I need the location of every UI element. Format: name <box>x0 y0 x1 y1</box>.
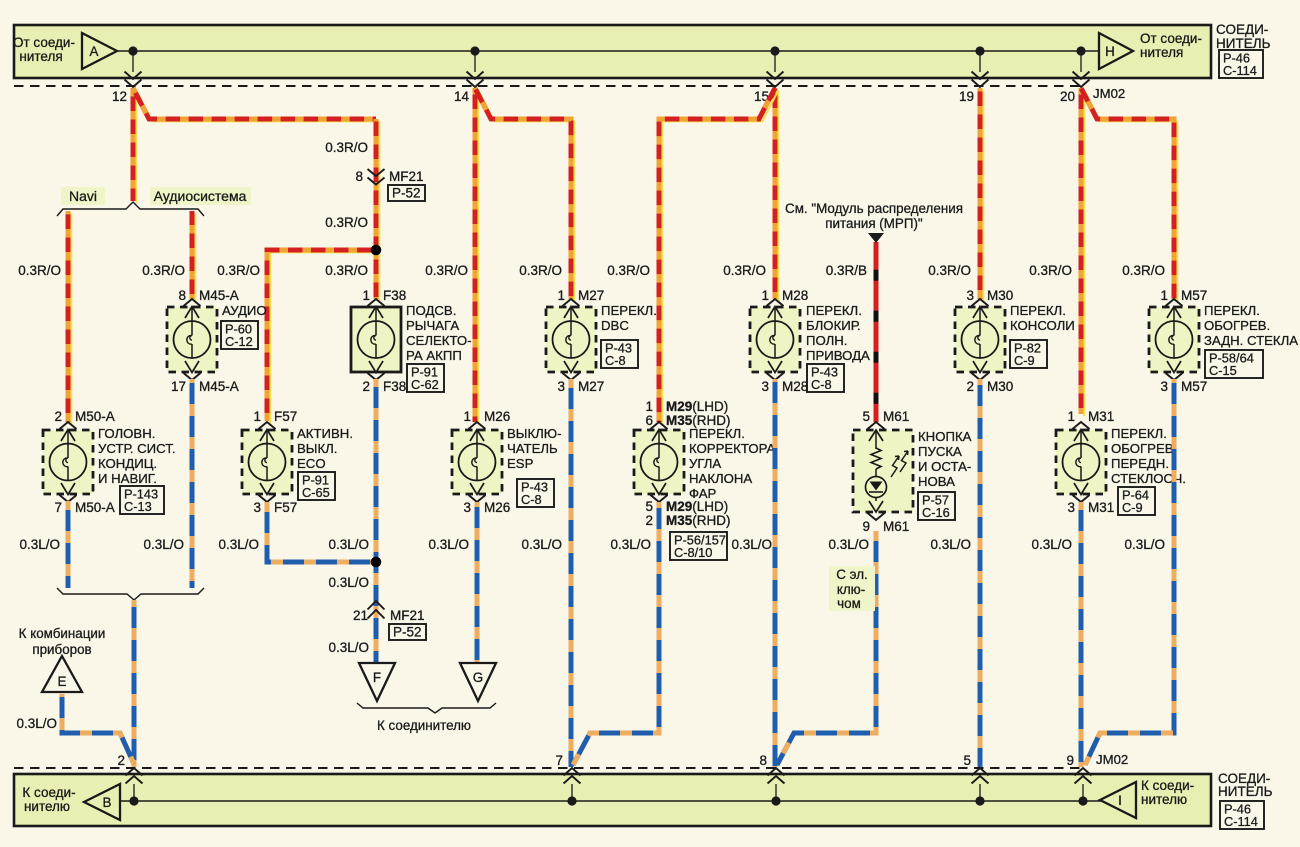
svg-text:2: 2 <box>362 379 370 394</box>
node pin 15 on top band <box>754 46 784 104</box>
label К соединителю (F/G) <box>377 718 471 733</box>
wire labels 0.3L/O row <box>19 537 1165 552</box>
svg-text:A: A <box>90 44 99 59</box>
pins 1 M29 / 6 M35 <box>645 399 730 428</box>
svg-text:С-12: С-12 <box>225 334 253 349</box>
svg-text:С эл.: С эл. <box>836 567 867 582</box>
wire R/O pin15 vertical to 4WD lock switch <box>775 88 778 301</box>
svg-text:9: 9 <box>862 519 870 534</box>
pin 1 M27 <box>557 288 604 303</box>
connector triangle H <box>1099 33 1133 69</box>
label АКТИВН. ВЫКЛ. ECO <box>297 426 353 471</box>
svg-text:0.3R/O: 0.3R/O <box>325 215 368 230</box>
wire R/O pin14 vertical to ESP switch <box>475 88 478 424</box>
svg-text:0.3R/O: 0.3R/O <box>425 263 468 278</box>
svg-text:M26: M26 <box>484 500 510 515</box>
svg-text:1: 1 <box>463 409 471 424</box>
wire L/O console switch to bottom pin 5 <box>978 379 983 767</box>
svg-text:0.3L/O: 0.3L/O <box>218 537 259 552</box>
svg-text:2: 2 <box>117 753 125 768</box>
svg-text:С-62: С-62 <box>411 377 439 392</box>
svg-text:1: 1 <box>557 288 565 303</box>
lamp: ПЕРЕКЛ. КОНСОЛИ <box>955 299 1005 380</box>
svg-text:БЛОКИР.: БЛОКИР. <box>806 318 861 333</box>
svg-text:M26: M26 <box>484 409 510 424</box>
svg-text:0.3L/O: 0.3L/O <box>328 575 369 590</box>
svg-text:5: 5 <box>645 499 653 514</box>
pin 1 M57 <box>1160 288 1207 303</box>
ref box P-58/64 C-15 <box>1205 350 1263 378</box>
label ПЕРЕКЛ. ОБОГРЕВ. ПЕРЕДН. СТЕКЛООЧ. <box>1111 426 1186 486</box>
label JM02 bottom <box>1096 752 1128 767</box>
svg-text:КОНСОЛИ: КОНСОЛИ <box>1010 318 1075 333</box>
svg-text:0.3R/B: 0.3R/B <box>826 263 867 278</box>
svg-text:3: 3 <box>1160 379 1168 394</box>
svg-text:ПЕРЕКЛ.: ПЕРЕКЛ. <box>689 426 745 441</box>
label С эл. ключом <box>829 566 875 611</box>
svg-text:0.3L/O: 0.3L/O <box>143 537 184 552</box>
svg-text:ПЕРЕКЛ.: ПЕРЕКЛ. <box>1204 303 1260 318</box>
ref box P-46 C-114 top right <box>1219 50 1263 78</box>
node pin 12 on top band <box>112 46 142 104</box>
svg-text:JM02: JM02 <box>1093 86 1125 101</box>
svg-text:7: 7 <box>54 500 62 515</box>
connector triangle I <box>1100 782 1136 818</box>
svg-text:M28: M28 <box>782 288 808 303</box>
ref box P-57 C-16 <box>918 492 955 520</box>
svg-text:С-8: С-8 <box>605 353 626 368</box>
wire R/O pin19 vertical to console switch <box>980 88 983 301</box>
svg-text:ПРИВОДА: ПРИВОДА <box>806 348 870 363</box>
svg-text:С-9: С-9 <box>1122 500 1143 515</box>
svg-text:ФАР: ФАР <box>689 486 717 501</box>
label JM02 top <box>1093 86 1125 101</box>
pin 3 M26 <box>463 500 510 515</box>
svg-text:M35(RHD): M35(RHD) <box>666 513 731 528</box>
svg-text:0.3L/O: 0.3L/O <box>328 537 369 552</box>
pin 2 M30 <box>966 379 1013 394</box>
svg-text:СОЕДИ-: СОЕДИ- <box>1216 22 1268 37</box>
label Аудиосистема <box>150 187 251 205</box>
wire R/O MF21 column down to F38 <box>376 119 379 301</box>
svg-text:ПОДСВ.: ПОДСВ. <box>406 303 456 318</box>
svg-text:0.3L/O: 0.3L/O <box>328 640 369 655</box>
pins 5 M29 / 2 M35 <box>645 499 730 528</box>
ref box P-64 C-9 <box>1118 487 1155 515</box>
lamp: ГОЛОВН. УСТР. СИСТ. КОНДИЦ. И НАВИГ. <box>43 422 93 502</box>
svg-text:РА АКПП: РА АКПП <box>406 348 462 363</box>
svg-text:M45-A: M45-A <box>199 288 239 303</box>
svg-text:3: 3 <box>253 500 261 515</box>
pin 8 M45-A <box>178 288 238 303</box>
svg-text:M57: M57 <box>1181 379 1207 394</box>
note: see power distribution module <box>785 201 963 243</box>
svg-text:С-65: С-65 <box>302 485 330 500</box>
label ПЕРЕКЛ. DBC <box>601 303 657 333</box>
wire L/O start/stop button to pin 8 <box>777 531 876 765</box>
pin 9 M61 <box>862 519 909 534</box>
svg-text:0.3L/O: 0.3L/O <box>428 537 469 552</box>
svg-text:0.3R/O: 0.3R/O <box>607 263 650 278</box>
connector triangle E <box>42 656 82 692</box>
label ПОДСВ. РЫЧАГА СЕЛЕКТОРА АКПП <box>406 303 472 363</box>
svg-text:0.3R/O: 0.3R/O <box>1122 263 1165 278</box>
svg-text:От соеди-: От соеди- <box>1140 31 1202 46</box>
svg-text:14: 14 <box>454 89 470 104</box>
svg-text:G: G <box>473 670 483 685</box>
svg-text:Р-52: Р-52 <box>392 186 421 201</box>
svg-text:КОРРЕКТОРА: КОРРЕКТОРА <box>689 441 775 456</box>
node junction dot F38 column <box>371 245 382 256</box>
label К соединителю (right) <box>1141 778 1194 807</box>
svg-text:1: 1 <box>253 409 261 424</box>
svg-text:M30: M30 <box>987 379 1013 394</box>
svg-text:КОНДИЦ.: КОНДИЦ. <box>98 456 157 471</box>
wire R/B from MPD module to start/stop button <box>874 242 879 422</box>
lamp: ПЕРЕКЛ. DBC <box>546 299 596 380</box>
svg-text:ПЕРЕКЛ.: ПЕРЕКЛ. <box>806 303 862 318</box>
svg-text:0.3L/O: 0.3L/O <box>1124 537 1165 552</box>
svg-text:MF21: MF21 <box>390 608 425 623</box>
svg-text:ПОЛН.: ПОЛН. <box>806 333 847 348</box>
svg-text:нителю: нителю <box>24 799 70 814</box>
svg-text:M61: M61 <box>883 409 909 424</box>
wire L/O rear defogger to pin 9 <box>1085 379 1174 765</box>
svg-text:2: 2 <box>645 513 653 528</box>
bottom connector bus band <box>14 774 1211 826</box>
wire R/O pin12 branch to MF21 column <box>133 88 379 121</box>
label 0.3L/O (E branch) <box>16 716 57 731</box>
dashed boundary line bottom <box>14 767 1084 769</box>
label АУДИО <box>222 303 267 318</box>
svg-text:СЕЛЕКТО-: СЕЛЕКТО- <box>406 333 472 348</box>
svg-text:С-16: С-16 <box>922 505 950 520</box>
svg-text:21: 21 <box>353 608 368 623</box>
svg-text:1: 1 <box>1067 409 1075 424</box>
label: От соединителя (left) <box>13 35 75 64</box>
svg-text:1: 1 <box>1160 288 1168 303</box>
svg-text:НИТЕЛЬ: НИТЕЛЬ <box>1218 784 1273 799</box>
svg-text:I: I <box>1118 793 1122 808</box>
svg-text:MF21: MF21 <box>389 169 424 184</box>
wire L/O 4WD lock to bottom pin 8 <box>773 379 778 767</box>
top connector bus band <box>14 25 1211 78</box>
wire L/O DBC to bottom pin 7 <box>569 379 574 767</box>
svg-text:АУДИО: АУДИО <box>222 303 267 318</box>
svg-text:M50-A: M50-A <box>75 500 115 515</box>
svg-text:1: 1 <box>362 288 370 303</box>
node pin 20 on top band <box>1060 46 1090 104</box>
svg-text:нителю: нителю <box>1141 792 1187 807</box>
wire R/O branch junction to F57 column <box>267 250 379 423</box>
svg-text:И НАВИГ.: И НАВИГ. <box>98 471 157 486</box>
svg-text:0.3L/O: 0.3L/O <box>930 537 971 552</box>
svg-text:К соединителю: К соединителю <box>377 718 471 733</box>
svg-text:M61: M61 <box>883 519 909 534</box>
svg-text:E: E <box>58 674 67 689</box>
svg-text:ПЕРЕДН.: ПЕРЕДН. <box>1111 456 1169 471</box>
node pin 19 on top band <box>959 46 989 104</box>
svg-text:НАКЛОНА: НАКЛОНА <box>689 471 752 486</box>
pin 17 M45-A <box>171 379 239 394</box>
connector triangle F <box>359 663 395 701</box>
svg-text:С-15: С-15 <box>1209 363 1237 378</box>
node pin 5 on bottom band <box>963 753 988 806</box>
svg-text:0.3R/O: 0.3R/O <box>325 140 368 155</box>
wire L/O Audio to merge bracket <box>190 379 195 588</box>
svg-text:M27: M27 <box>578 288 604 303</box>
svg-text:КНОПКА: КНОПКА <box>918 429 972 444</box>
svg-text:M29(LHD): M29(LHD) <box>666 499 728 514</box>
svg-text:клю-: клю- <box>837 582 865 597</box>
connector triangle B <box>84 784 120 820</box>
extra 0.3R/O labels MF21 column <box>325 140 368 230</box>
lamp: ПЕРЕКЛ. ОБОГРЕВ. ЗАДН. СТЕКЛА <box>1149 299 1199 380</box>
connector triangle G <box>460 663 496 701</box>
svg-text:ВЫКЛ.: ВЫКЛ. <box>297 441 337 456</box>
svg-text:JM02: JM02 <box>1096 752 1128 767</box>
wire R/O pin20 branch to rear defogger switch <box>1081 88 1177 301</box>
lamp: ПЕРЕКЛ. БЛОКИР. ПОЛН. ПРИВОДА <box>750 299 800 380</box>
svg-text:0.3R/O: 0.3R/O <box>18 263 61 278</box>
pin 3 M28 <box>761 379 808 394</box>
svg-text:С-13: С-13 <box>124 499 152 514</box>
ref box P-43 C-8 (ESP) <box>517 479 554 507</box>
wire L/O leveling switch to pin 7 <box>573 502 659 765</box>
svg-text:0.3R/O: 0.3R/O <box>1029 263 1072 278</box>
svg-text:0.3R/O: 0.3R/O <box>325 263 368 278</box>
wire R/O pin12 vertical to Navi/Audio bracket <box>133 88 136 203</box>
svg-text:0.3L/O: 0.3L/O <box>1031 537 1072 552</box>
label КНОПКА ПУСКА И ОСТАНОВА <box>918 429 972 489</box>
label ПЕРЕКЛ. КОНСОЛИ <box>1010 303 1075 333</box>
svg-text:ЧАТЕЛЬ: ЧАТЕЛЬ <box>507 441 558 456</box>
wire L/O Navi to merge bracket <box>66 501 71 588</box>
svg-text:1: 1 <box>645 399 653 414</box>
svg-text:M27: M27 <box>578 379 604 394</box>
bracket under F and G <box>357 703 496 713</box>
svg-text:8: 8 <box>355 169 363 184</box>
svg-text:H: H <box>1105 44 1115 59</box>
svg-text:3: 3 <box>557 379 565 394</box>
svg-text:ESP: ESP <box>507 456 534 471</box>
svg-text:3: 3 <box>966 288 974 303</box>
svg-text:НИТЕЛЬ: НИТЕЛЬ <box>1216 36 1271 51</box>
svg-text:2: 2 <box>966 379 974 394</box>
ref box P-43 C-8 (4WD) <box>807 364 844 392</box>
svg-text:И ОСТА-: И ОСТА- <box>918 459 971 474</box>
node pin 9 on bottom band <box>1066 753 1091 806</box>
wire R/O pin14 branch to DBC <box>475 88 574 301</box>
dashed boundary line top <box>14 85 1081 87</box>
lamp: ПЕРЕКЛ. ОБОГРЕВ. ПЕРЕДН. СТЕКЛООЧ. <box>1056 422 1106 502</box>
svg-text:С-8/10: С-8/10 <box>674 545 712 560</box>
label ПЕРЕКЛ. КОРРЕКТОРА УГЛА НАКЛОНА ФАР <box>689 426 775 501</box>
wire L/O F57 to junction <box>267 502 376 562</box>
pin 3 M57 <box>1160 379 1207 394</box>
inline connector 8 MF21 P-52 (top) <box>355 169 425 201</box>
svg-text:НОВА: НОВА <box>918 474 955 489</box>
svg-text:M28: M28 <box>782 379 808 394</box>
svg-text:0.3L/O: 0.3L/O <box>610 537 651 552</box>
pin 7 M50-A <box>54 500 114 515</box>
svg-text:M31: M31 <box>1088 500 1114 515</box>
svg-text:ECO: ECO <box>297 456 326 471</box>
label ПЕРЕКЛ. ОБОГРЕВ. ЗАДН. СТЕКЛА <box>1204 303 1298 348</box>
svg-text:0.3R/O: 0.3R/O <box>142 263 185 278</box>
svg-text:ПЕРЕКЛ.: ПЕРЕКЛ. <box>1111 426 1167 441</box>
svg-text:УГЛА: УГЛА <box>689 456 721 471</box>
pin 1 F38 <box>362 288 406 303</box>
wire R/O pin20 vertical to front wiper deicer switch <box>1081 88 1084 416</box>
node pin 14 on top band <box>454 46 484 104</box>
pin 1 M28 <box>761 288 808 303</box>
svg-text:нителя: нителя <box>1140 45 1183 60</box>
svg-text:С-114: С-114 <box>1224 814 1258 829</box>
pin 5 M61 <box>862 409 909 424</box>
node pin 7 on bottom band <box>555 753 580 806</box>
connector triangle A <box>82 33 117 69</box>
svg-text:6: 6 <box>645 413 653 428</box>
ref box P-60 C-12 <box>221 321 258 349</box>
svg-text:8: 8 <box>759 753 767 768</box>
ref box P-56/157 C-8/10 <box>670 532 727 560</box>
svg-text:0.3R/O: 0.3R/O <box>519 263 562 278</box>
svg-text:С-8: С-8 <box>521 492 542 507</box>
pin 1 M26 <box>463 409 510 424</box>
svg-text:20: 20 <box>1060 89 1075 104</box>
svg-text:F38: F38 <box>383 379 406 394</box>
svg-text:0.3L/O: 0.3L/O <box>19 537 60 552</box>
svg-text:5: 5 <box>862 409 870 424</box>
label ПЕРЕКЛ. БЛОКИР. ПОЛН. ПРИВОДА <box>806 303 870 363</box>
inline connector 21 MF21 P-52 (bottom) <box>328 575 426 655</box>
svg-text:К соеди-: К соеди- <box>1141 778 1194 793</box>
pin 3 M31 <box>1067 500 1114 515</box>
wire L/O deicer switch to bottom pin 9 <box>1079 502 1084 767</box>
lamp: АКТИВН. ВЫКЛ. ECO <box>242 422 292 502</box>
lamp: ПОДСВ. РЫЧАГА СЕЛЕКТОРА АКПП <box>351 299 401 380</box>
node pin 2 on bottom band <box>117 753 142 806</box>
wire L/O from combination meter E branch <box>62 694 134 764</box>
wire R/O pin15 branch to headlamp leveling switch <box>659 88 778 424</box>
svg-text:АКТИВН.: АКТИВН. <box>297 426 353 441</box>
svg-text:чом: чом <box>837 596 861 611</box>
label К соединителю (left) <box>22 785 75 814</box>
label ГОЛОВН. УСТР. СИСТ. КОНДИЦ. И НАВИГ. <box>98 426 176 486</box>
svg-text:К комбинации: К комбинации <box>19 626 106 641</box>
svg-text:M29(LHD): M29(LHD) <box>666 399 728 414</box>
svg-text:Р-52: Р-52 <box>393 625 422 640</box>
wire labels 0.3R/O row <box>18 263 1165 278</box>
svg-text:F: F <box>373 670 381 685</box>
label ВЫКЛЮЧАТЕЛЬ ESP <box>507 426 562 471</box>
pin 3 M27 <box>557 379 604 394</box>
svg-text:F57: F57 <box>274 409 297 424</box>
svg-text:17: 17 <box>171 379 186 394</box>
button: КНОПКА ПУСКА И ОСТАНОВА (resistor+LED) <box>853 422 913 520</box>
label: От соединителя (right) <box>1140 31 1202 60</box>
svg-text:От соеди-: От соеди- <box>13 35 75 50</box>
svg-text:ПЕРЕКЛ.: ПЕРЕКЛ. <box>601 303 657 318</box>
ref box P-43 C-8 (DBC) <box>601 340 638 368</box>
svg-text:DBC: DBC <box>601 318 629 333</box>
pin 2 F38 <box>362 379 406 394</box>
svg-text:нителя: нителя <box>19 49 62 64</box>
svg-text:M45-A: M45-A <box>199 379 239 394</box>
merge bracket Navi/Audio <box>57 588 204 600</box>
svg-text:9: 9 <box>1066 753 1074 768</box>
ref box P-91 C-65 <box>298 472 335 500</box>
ref box P-91 C-62 <box>407 364 444 392</box>
svg-text:F38: F38 <box>383 288 406 303</box>
lamp: АУДИО (audio unit illumination) <box>167 299 217 380</box>
svg-text:M57: M57 <box>1181 288 1207 303</box>
svg-text:питания (МРП)": питания (МРП)" <box>825 216 923 231</box>
split bracket pin12 to Navi and Audio <box>57 202 204 216</box>
wire L/O ESP to connector G <box>475 502 480 662</box>
svg-text:M31: M31 <box>1088 409 1114 424</box>
ref box P-46 C-114 bottom right <box>1220 801 1264 829</box>
svg-text:3: 3 <box>1067 500 1075 515</box>
svg-text:8: 8 <box>178 288 186 303</box>
svg-text:К соеди-: К соеди- <box>22 785 75 800</box>
svg-text:ОБОГРЕВ.: ОБОГРЕВ. <box>1111 441 1177 456</box>
svg-text:2: 2 <box>54 409 62 424</box>
svg-text:F57: F57 <box>274 500 297 515</box>
svg-text:0.3R/O: 0.3R/O <box>217 263 260 278</box>
svg-text:С-114: С-114 <box>1223 63 1257 78</box>
svg-text:0.3R/O: 0.3R/O <box>723 263 766 278</box>
svg-text:Аудиосистема: Аудиосистема <box>154 188 247 204</box>
ref box P-82 C-9 <box>1010 340 1047 368</box>
wire L/O F38 column down to connector F <box>374 379 379 662</box>
svg-text:ЗАДН. СТЕКЛА: ЗАДН. СТЕКЛА <box>1204 333 1298 348</box>
pin 2 M50-A <box>54 409 114 424</box>
svg-text:УСТР. СИСТ.: УСТР. СИСТ. <box>98 441 176 456</box>
svg-text:0.3L/O: 0.3L/O <box>731 537 772 552</box>
lamp: ВЫКЛЮЧАТЕЛЬ ESP <box>452 422 502 502</box>
lamp: ПЕРЕКЛ. КОРРЕКТОРА УГЛА НАКЛОНА ФАР <box>634 422 684 502</box>
wire R/O Audio branch <box>192 211 195 301</box>
svg-text:ПЕРЕКЛ.: ПЕРЕКЛ. <box>1010 303 1066 318</box>
svg-text:ВЫКЛЮ-: ВЫКЛЮ- <box>507 426 562 441</box>
svg-text:0.3L/O: 0.3L/O <box>521 537 562 552</box>
label К комбинации приборов <box>19 626 106 657</box>
svg-text:7: 7 <box>555 753 563 768</box>
pin 1 F57 <box>253 409 297 424</box>
svg-text:См. "Модуль распределения: См. "Модуль распределения <box>785 201 963 216</box>
pin 3 F57 <box>253 500 297 515</box>
svg-text:0.3L/O: 0.3L/O <box>828 537 869 552</box>
svg-text:0.3L/O: 0.3L/O <box>16 716 57 731</box>
label Navi <box>61 187 105 205</box>
svg-text:B: B <box>103 795 112 810</box>
pin 1 M31 <box>1067 409 1114 424</box>
svg-text:1: 1 <box>761 288 769 303</box>
node junction dot bottom F38 column <box>371 557 382 568</box>
label: СОЕДИНИТЕЛЬ top right <box>1216 22 1271 51</box>
svg-text:0.3R/O: 0.3R/O <box>928 263 971 278</box>
svg-text:5: 5 <box>963 753 971 768</box>
svg-text:ОБОГРЕВ.: ОБОГРЕВ. <box>1204 318 1270 333</box>
label СОЕДИНИТЕЛЬ bottom right <box>1218 771 1273 799</box>
pin 3 M30 <box>966 288 1013 303</box>
ref box P-143 C-13 <box>120 486 164 514</box>
svg-text:12: 12 <box>112 89 127 104</box>
svg-text:Navi: Navi <box>69 188 97 204</box>
svg-text:С-9: С-9 <box>1014 353 1035 368</box>
